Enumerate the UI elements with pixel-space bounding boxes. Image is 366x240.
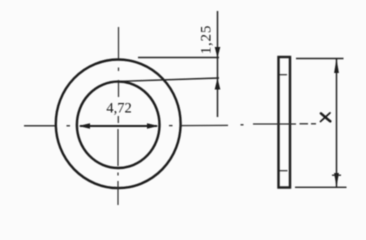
svg-text:4,72: 4,72 [106,101,131,117]
svg-text:1,25: 1,25 [199,25,215,54]
